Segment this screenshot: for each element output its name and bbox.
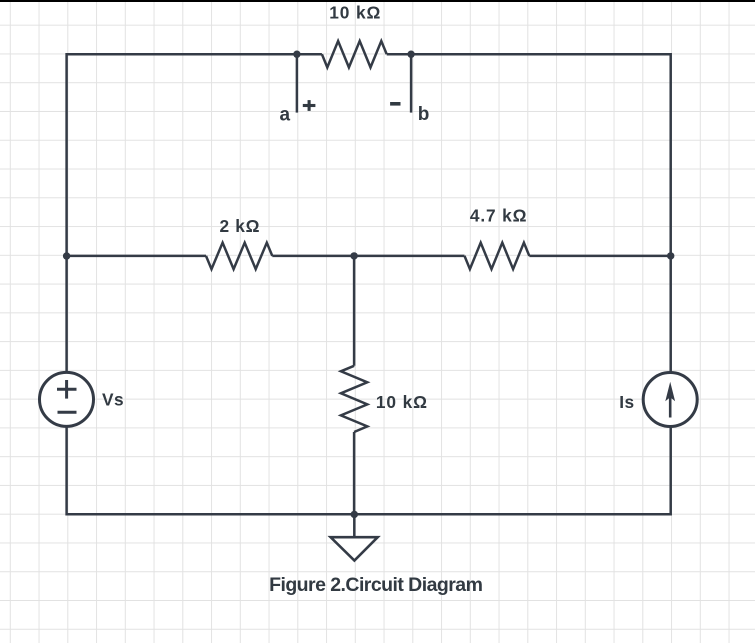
label value 10 kOhm (vertical resistor) (376, 392, 428, 412)
svg-text:b: b (418, 104, 430, 125)
wire center branch upper (353, 256, 356, 366)
label node b (418, 104, 430, 125)
ground symbol (331, 537, 378, 560)
node center junction dot (350, 252, 357, 259)
node b junction dot (407, 51, 414, 58)
svg-text:Figure 2.Circuit Diagram: Figure 2.Circuit Diagram (269, 574, 482, 596)
node right-mid junction dot (667, 252, 674, 259)
svg-text:Is: Is (619, 392, 634, 412)
resistor R2 2 kOhm zigzag (206, 243, 272, 269)
wire middle rail right segment (529, 255, 670, 258)
resistor R4 10 kOhm (vertical) zigzag (341, 366, 367, 432)
current source Is circle (643, 373, 697, 427)
wire stub node b (410, 54, 413, 112)
caption Figure 2.Circuit Diagram (269, 574, 482, 596)
svg-text:Vs: Vs (102, 390, 124, 410)
svg-text:a: a (280, 104, 291, 125)
svg-text:10 kΩ: 10 kΩ (329, 3, 381, 23)
wire top rail right segment (387, 53, 671, 56)
label value 2 kOhm (220, 216, 261, 236)
wire top rail left segment (67, 53, 322, 56)
label node a (280, 104, 291, 125)
resistor R3 4.7 kOhm zigzag (465, 243, 530, 269)
wire right rail upper (669, 53, 672, 373)
label Vs (102, 390, 124, 410)
wire middle rail left segment (67, 255, 206, 258)
label polarity minus (390, 102, 400, 106)
wire middle rail center segment (272, 255, 464, 258)
wire bottom rail (67, 513, 671, 516)
label value 10 kOhm (top resistor) (329, 3, 381, 23)
svg-text:10 kΩ: 10 kΩ (376, 392, 428, 412)
label value 4.7 kOhm (470, 205, 527, 225)
wire right rail lower (669, 427, 672, 516)
wire stub node a (296, 54, 299, 112)
node a junction dot (293, 51, 300, 58)
wire left rail upper (65, 53, 68, 373)
voltage source Vs circle (40, 372, 94, 426)
node left-mid junction dot (63, 252, 70, 259)
label Is (619, 392, 634, 412)
wire ground stub (353, 514, 356, 537)
label polarity plus (303, 100, 316, 111)
wire center branch lower (353, 432, 356, 514)
wire left rail lower (65, 426, 68, 515)
resistor R1 10 kOhm (top) zigzag (322, 41, 387, 67)
node bottom junction dot (351, 511, 358, 518)
svg-text:4.7 kΩ: 4.7 kΩ (470, 205, 527, 225)
svg-text:2 kΩ: 2 kΩ (220, 216, 261, 236)
